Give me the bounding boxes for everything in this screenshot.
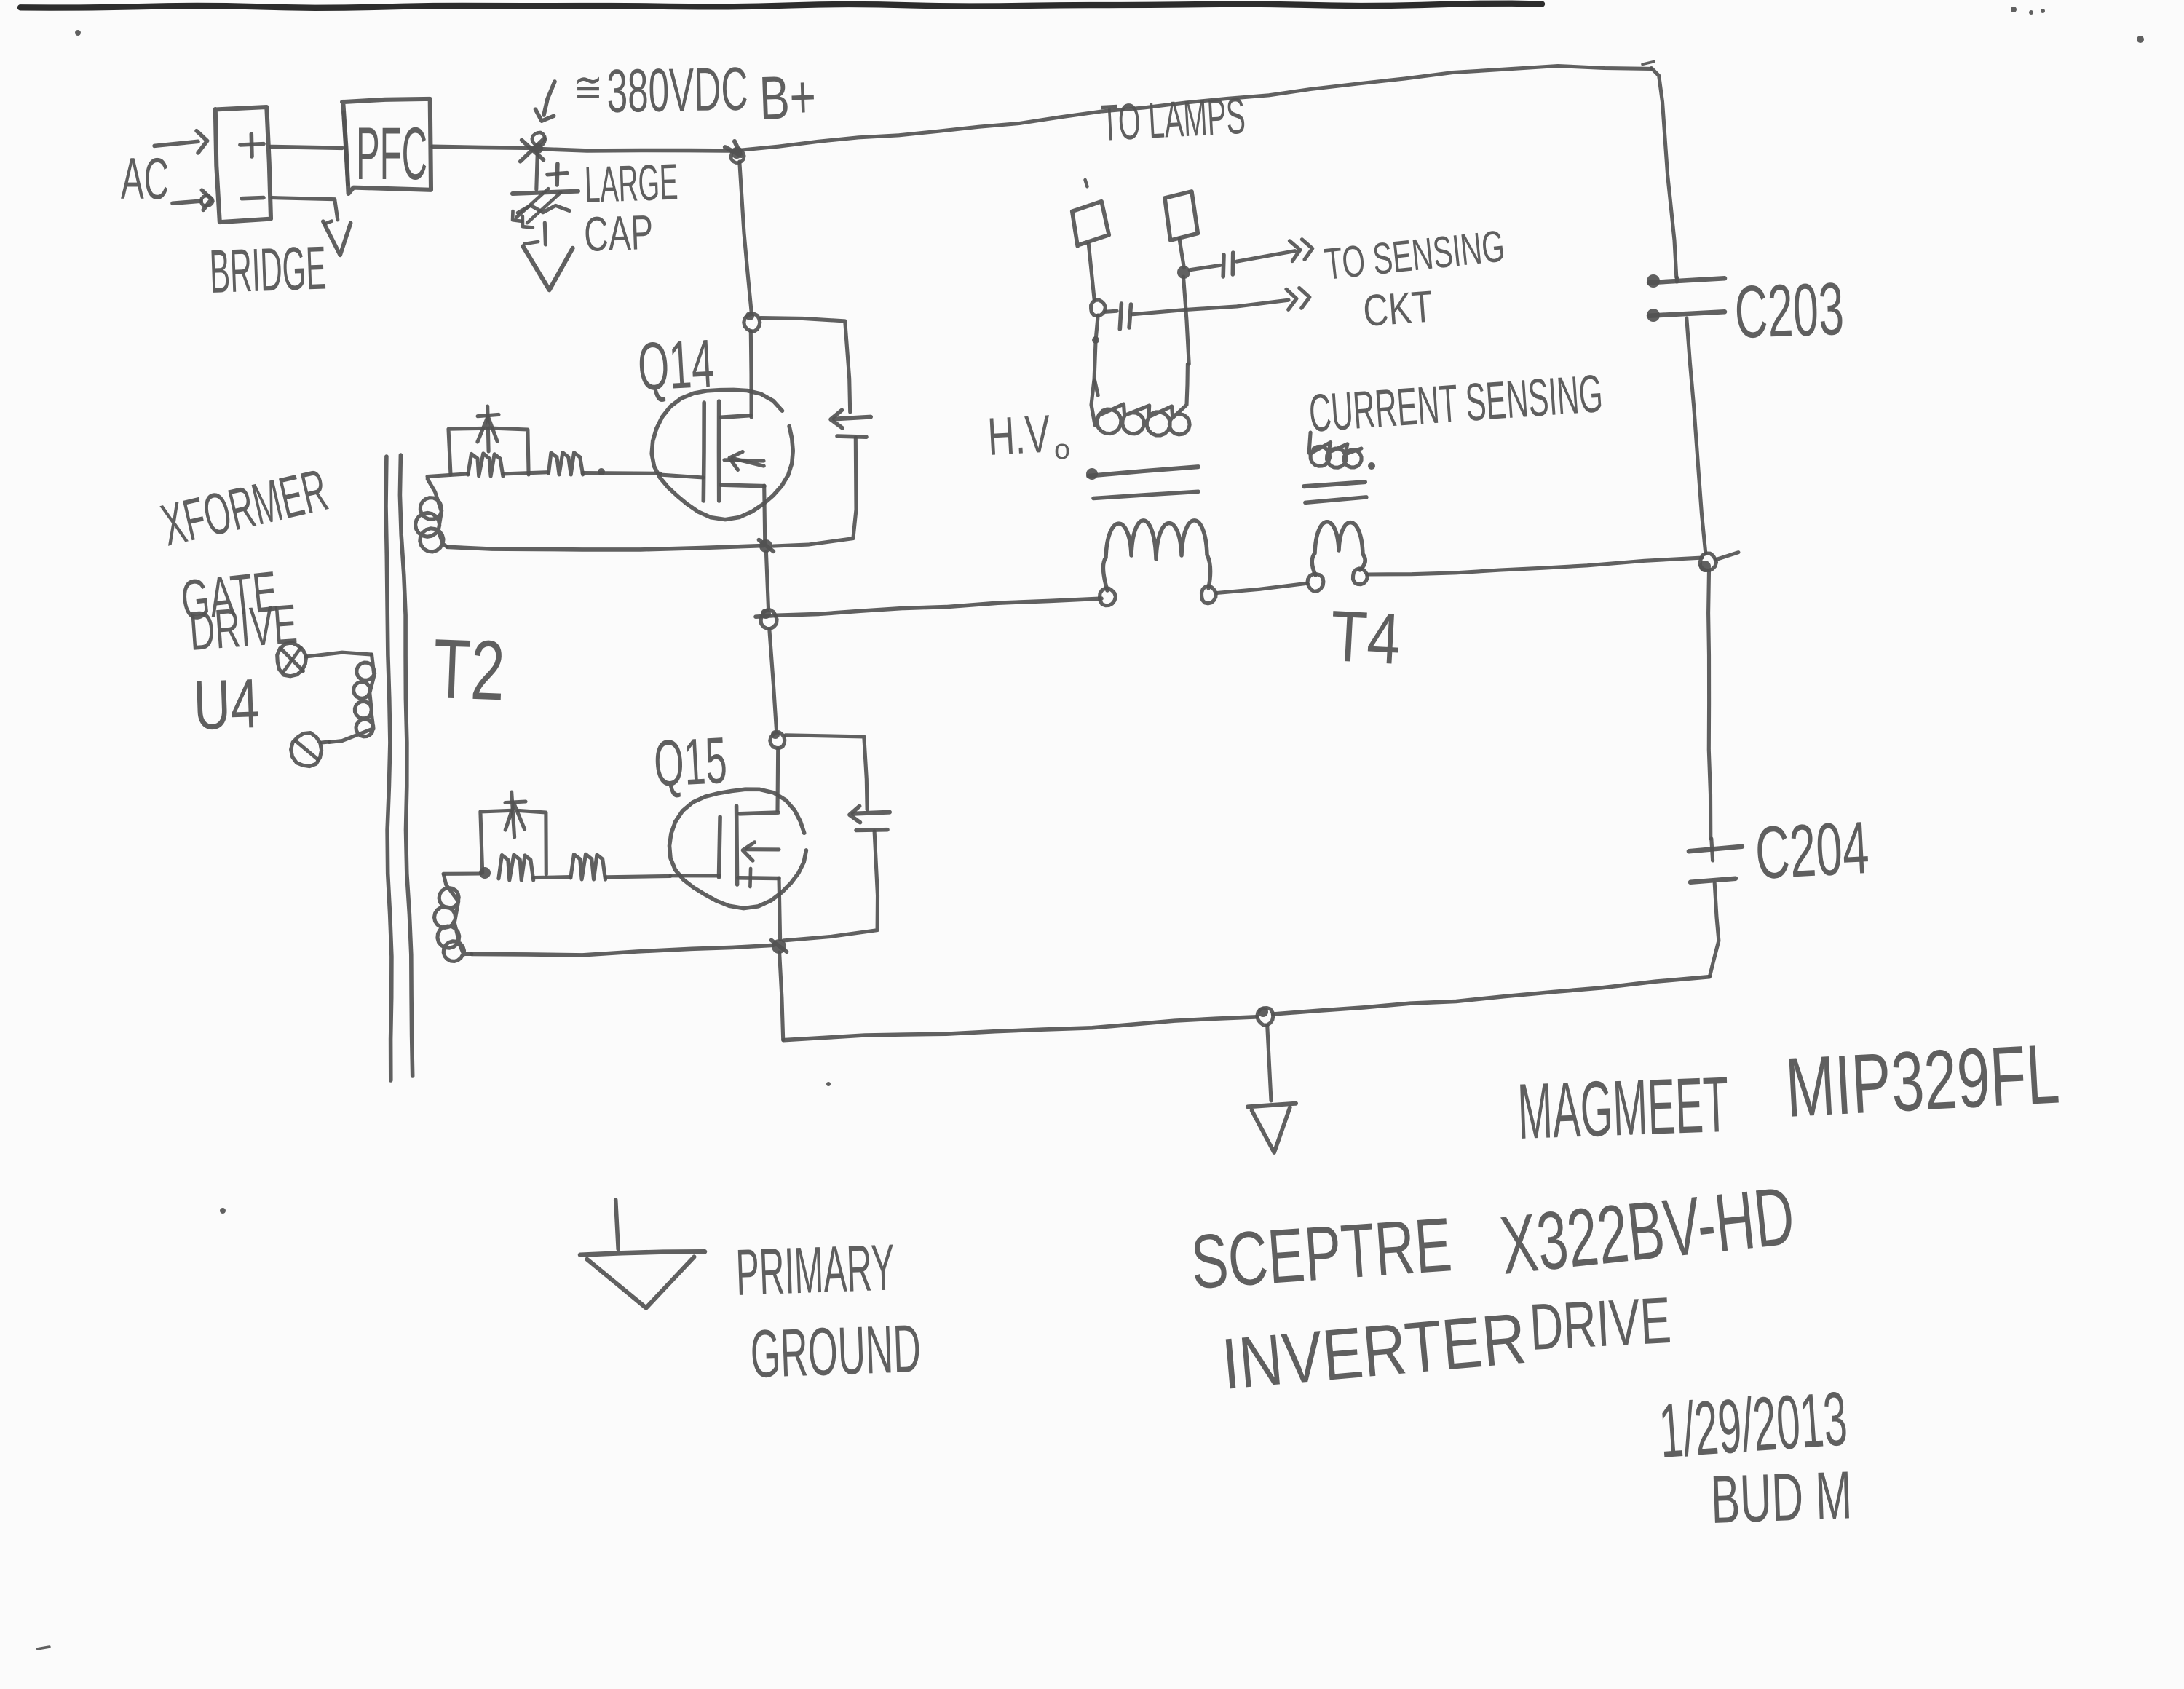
wire upper sensing arrow: [1237, 251, 1295, 261]
svg-text:C204: C204: [1753, 806, 1871, 895]
wire Q14 source: [764, 486, 765, 545]
capacitor sense (lower): [1120, 304, 1121, 329]
wire T2 upper to Q14 gate resistors: [427, 474, 468, 477]
svg-text:MAGMEET: MAGMEET: [1516, 1060, 1730, 1155]
wire Q14 drain to snubber cap: [761, 318, 850, 413]
terminal current sense right: [1353, 569, 1368, 585]
capacitor C203: [1649, 278, 1725, 282]
svg-text:DRIVE: DRIVE: [1528, 1284, 1673, 1364]
svg-text:BUD M: BUD M: [1709, 1457, 1853, 1538]
svg-text:T2: T2: [432, 621, 506, 718]
svg-text:PFC: PFC: [356, 112, 427, 195]
svg-text:H.V: H.V: [986, 405, 1052, 467]
wire B+ to Q14 drain: [740, 162, 752, 313]
winding T4 primary: [1103, 521, 1210, 590]
terminal U4 bottom: [291, 733, 322, 767]
wire bottom return bus: [783, 1017, 1257, 1040]
resistor R gate Q14 (in box): [468, 454, 503, 476]
node B+ junction: [731, 149, 744, 163]
svg-text:T4: T4: [1329, 595, 1403, 679]
node Q14 source junction: [759, 539, 772, 553]
capacitor snubber (Q15): [853, 812, 890, 814]
wire junction stub right: [1716, 553, 1738, 560]
wire bridge minus to ground: [272, 198, 338, 220]
wire node to large cap: [537, 153, 538, 189]
svg-text:Q14: Q14: [636, 325, 716, 405]
svg-text:PRIMARY: PRIMARY: [735, 1231, 895, 1310]
wire snubber cap to Q15 source node: [783, 831, 877, 941]
svg-text:380VDC: 380VDC: [606, 55, 749, 125]
terminal T4 primary left: [1100, 588, 1116, 606]
node lamp2 sensing tap: [1177, 266, 1190, 279]
diode box Q15 gate: [480, 810, 510, 873]
wire Q15 drain to snubber cap: [786, 735, 867, 810]
svg-text:TO LAMPS: TO LAMPS: [1100, 87, 1247, 151]
wire node to ground symbol: [1267, 1025, 1271, 1101]
winding T2 lower secondary: [435, 875, 472, 962]
wire AC live arrow: [154, 141, 198, 146]
transistor Q15: [670, 789, 807, 908]
wire resistor to Q15 gate: [606, 876, 670, 877]
node half-bridge output: [761, 610, 777, 629]
winding T4 secondary H.V.: [1091, 364, 1190, 435]
ground (primary return): [1248, 1104, 1296, 1107]
svg-text:B+: B+: [758, 62, 817, 132]
arrow marker at B+ rail: [544, 82, 555, 115]
node Q15 source junction: [772, 939, 786, 954]
resistor R gate Q14 series: [549, 453, 583, 475]
diode box Q14 gate: [448, 428, 486, 475]
svg-text:GROUND: GROUND: [749, 1310, 922, 1392]
capacitor sense (upper): [1221, 255, 1225, 277]
wire between Q15 gate resistors: [534, 877, 571, 878]
terminal T4 primary right: [1202, 586, 1216, 604]
resistor R gate Q15 (in box): [499, 855, 534, 880]
node primary ground: [1257, 1008, 1273, 1026]
wire lamp1 down to H.V. winding: [1088, 243, 1094, 300]
ground (bridge): [323, 221, 351, 255]
wire U4 top terminal to winding: [306, 652, 371, 657]
transistor Q14: [652, 389, 793, 519]
wire snubber cap to Q14 source node: [773, 438, 856, 546]
wire B+ bus right corner down: [1652, 68, 1677, 278]
capacitor C204: [1689, 847, 1742, 852]
svg-text:BRIDGE: BRIDGE: [208, 233, 327, 306]
wire between Q14 gate resistors: [503, 472, 548, 474]
svg-text:Q15: Q15: [652, 724, 729, 801]
transformer T4 core: [1088, 467, 1198, 476]
wire lamp2 down to H.V. winding: [1179, 239, 1184, 268]
svg-text:CAP: CAP: [583, 205, 654, 262]
winding current sense primary: [1312, 522, 1365, 575]
transformer T2 core: [386, 456, 392, 1080]
wire B+ bus to top right: [534, 149, 738, 151]
svg-text:U4: U4: [192, 665, 261, 745]
wire AC neutral arrow: [173, 201, 201, 203]
wire half-bridge to T4 primary: [756, 598, 1101, 617]
lamp connector 2: [1165, 191, 1198, 240]
wire upper sensing line: [1190, 265, 1220, 269]
diode D Q14 gate: [488, 406, 488, 451]
ground symbol (legend): [616, 1200, 619, 1249]
svg-text:AC: AC: [121, 146, 169, 212]
capacitor LARGE CAP: [513, 191, 578, 194]
lamp connector 1: [1072, 202, 1109, 246]
wire C204 to bottom return: [1710, 883, 1719, 976]
wire Q15 source to bottom corner: [780, 952, 783, 1040]
wire lower sensing arrow: [1133, 300, 1289, 315]
diode D Q15 gate: [512, 792, 515, 837]
bridge rectifier box: [215, 107, 271, 222]
svg-text:MIP329FL: MIP329FL: [1784, 1026, 2062, 1135]
node Q15 drain: [770, 732, 785, 748]
ground (large cap): [523, 246, 572, 290]
wire Q15 drain into transistor: [775, 748, 780, 811]
wire Q15 gate: [670, 874, 719, 877]
wire bridge to PFC: [271, 147, 342, 149]
wire T4 primary to current sense primary: [1216, 583, 1307, 593]
wire Q14 gate: [660, 475, 703, 478]
wire Q14 drain into transistor: [749, 331, 753, 417]
wire T2 upper return to Q14 source: [447, 546, 763, 550]
svg-text:o: o: [1054, 435, 1070, 465]
transformer current sense core: [1304, 482, 1365, 486]
wire half-bridge node to Q15 drain: [769, 629, 777, 732]
wire current sense to right bus: [1367, 558, 1702, 574]
node C203/C204 junction: [1701, 553, 1717, 571]
wire C203 to junction node: [1687, 318, 1706, 553]
node Q14 drain: [744, 314, 760, 331]
wire large cap to ground: [545, 223, 545, 245]
node input junction: [532, 132, 545, 146]
svg-text:CKT: CKT: [1361, 281, 1435, 336]
winding current sense secondary: [1309, 432, 1361, 467]
wire T2 lower to Q15 gate resistors: [443, 871, 480, 875]
bridge + terminal: [240, 144, 264, 145]
resistor R gate Q15 series: [571, 854, 606, 879]
svg-text:SCEPTRE: SCEPTRE: [1188, 1202, 1454, 1305]
svg-text:C203: C203: [1733, 267, 1845, 354]
svg-text:≅: ≅: [574, 64, 603, 111]
wire T2 lower return to Q15 source: [472, 945, 773, 955]
wire junction to C204: [1709, 571, 1711, 839]
svg-text:LARGE: LARGE: [584, 154, 679, 213]
bridge - terminal: [242, 198, 264, 199]
wire PFC to B+ input node: [432, 146, 534, 148]
winding U4 gate drive: [329, 654, 375, 743]
terminal current sense left: [1307, 574, 1324, 592]
wire Q15 source: [779, 878, 780, 939]
capacitor snubber (Q14): [834, 417, 871, 419]
wire U4 winding to bottom terminal: [322, 742, 329, 743]
wire Q14 source to half-bridge node: [766, 552, 768, 609]
winding T2 upper secondary: [416, 479, 447, 552]
large cap + sign: [547, 173, 567, 175]
terminal U4 top: [277, 643, 306, 676]
wire lower sensing line: [1105, 311, 1117, 312]
node lamp1 sensing tap: [1091, 300, 1106, 316]
wire resistor to Q14 gate: [582, 471, 660, 475]
PFC box: [342, 99, 431, 194]
